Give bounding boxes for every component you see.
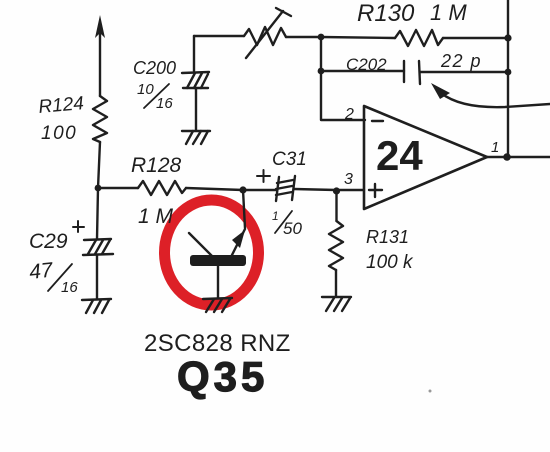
- svg-text:24: 24: [376, 132, 423, 179]
- svg-text:100 k: 100 k: [366, 252, 414, 273]
- svg-text:22 p: 22 p: [440, 51, 482, 71]
- svg-text:R131: R131: [366, 227, 409, 247]
- svg-text:1: 1: [491, 139, 499, 156]
- svg-text:1 M: 1 M: [138, 205, 174, 228]
- svg-text:C31: C31: [272, 149, 307, 170]
- svg-text:R124: R124: [38, 93, 85, 118]
- svg-text:C200: C200: [133, 58, 176, 78]
- svg-text:C29: C29: [29, 230, 68, 253]
- svg-text:1: 1: [272, 209, 279, 223]
- svg-text:1 M: 1 M: [430, 0, 467, 25]
- svg-text:47: 47: [28, 259, 55, 284]
- svg-text:16: 16: [61, 279, 78, 296]
- svg-text:R130: R130: [357, 0, 415, 27]
- svg-text:100: 100: [41, 123, 77, 144]
- svg-text:16: 16: [156, 95, 173, 112]
- svg-text:50: 50: [283, 219, 302, 238]
- svg-text:R128: R128: [131, 154, 182, 177]
- svg-text:Q35: Q35: [177, 353, 268, 400]
- svg-text:2: 2: [344, 106, 354, 123]
- svg-text:C202: C202: [346, 55, 387, 74]
- svg-text:3: 3: [344, 171, 353, 188]
- svg-text:10: 10: [137, 81, 154, 98]
